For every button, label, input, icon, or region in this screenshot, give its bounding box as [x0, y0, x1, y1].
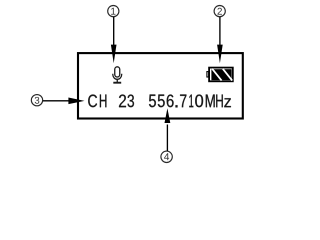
callout 2 arrow	[217, 17, 223, 64]
callout 4 circle	[161, 151, 172, 162]
display frame	[78, 53, 243, 118]
callout 1 circle	[108, 6, 119, 17]
callout 3 circle	[31, 95, 42, 106]
callout 3 arrow	[43, 98, 85, 105]
callout 4 arrow	[165, 108, 171, 151]
callout 1 arrow	[111, 17, 117, 64]
callout 2 circle	[214, 6, 225, 17]
display text "CH 23 556.710MHz"	[88, 95, 231, 108]
battery icon	[207, 68, 233, 82]
microphone icon	[113, 67, 122, 83]
